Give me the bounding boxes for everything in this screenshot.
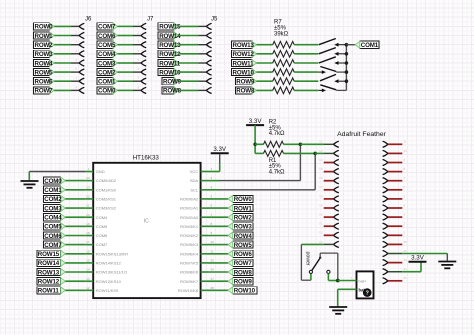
wire — [179, 44, 206, 46]
Feather right pin 5 — [383, 196, 388, 202]
svg-text:ROW14: ROW14 — [38, 260, 60, 267]
Feather left pin 18 — [333, 196, 338, 202]
wire stub — [324, 225, 334, 227]
net label ROW5 — [208, 244, 228, 246]
pin number 2 — [404, 222, 406, 226]
svg-text:COM2: COM2 — [44, 196, 62, 203]
pin 7 of J7 — [141, 78, 146, 84]
resistor R7 element 6 — [273, 87, 295, 94]
IC pin stub left 22 — [86, 198, 93, 200]
IC pin stub right 27 — [201, 280, 208, 282]
IC pin name ROW12/KS10 — [96, 279, 122, 284]
pin number 3 — [211, 176, 213, 180]
svg-text:ROW11: ROW11 — [38, 288, 60, 295]
power supply 3.3V (IC) — [211, 146, 229, 153]
pin number 2 — [351, 285, 353, 289]
svg-text:COM6: COM6 — [98, 33, 116, 40]
net label ROW10 — [158, 69, 181, 77]
svg-text:29: 29 — [404, 249, 408, 253]
wire — [54, 80, 79, 82]
pin number 2 — [76, 31, 78, 35]
wire stub — [388, 280, 402, 282]
wire — [294, 80, 318, 82]
pin number 4 — [404, 203, 406, 207]
pin number 23 — [86, 185, 90, 189]
net label flag ROW6 — [228, 250, 253, 258]
svg-text:ROW9: ROW9 — [236, 79, 255, 86]
wire stub — [388, 225, 402, 227]
IC pin name COM0/AD2 — [96, 178, 117, 183]
pin number 2 — [203, 31, 205, 35]
pin number 1 — [88, 167, 90, 171]
pin 7 of J6 — [79, 78, 84, 84]
wire — [65, 189, 86, 191]
net label ROW9 — [235, 78, 256, 86]
svg-text:COM1: COM1 — [44, 187, 62, 194]
junction — [253, 143, 257, 147]
svg-text:COM7: COM7 — [96, 242, 108, 247]
IC pin name ROW1/A1 — [180, 206, 199, 211]
pin number 1 — [351, 276, 353, 280]
svg-text:18: 18 — [319, 194, 323, 198]
wire — [54, 25, 79, 27]
Feather right pin 6 — [383, 187, 388, 193]
pin number 16 — [86, 249, 90, 253]
net label ROW11 — [158, 59, 181, 67]
svg-text:ROW14/KS12: ROW14/KS12 — [96, 261, 122, 266]
svg-text:20: 20 — [319, 213, 323, 217]
wire — [257, 89, 273, 91]
resistor R2 labels — [269, 120, 285, 138]
pin 1 of J6 — [79, 23, 84, 29]
switch arrow contact ROW12 — [334, 52, 346, 56]
wire — [65, 216, 86, 218]
op-amp U1 : IC HT16K33 body — [93, 154, 200, 298]
Feather right pin 2 — [383, 223, 388, 229]
resistor R7 element 3 — [273, 60, 295, 67]
ground (battery) — [329, 307, 347, 314]
pin 6 of J5 — [206, 69, 211, 75]
net label flag ROW4 — [228, 232, 253, 240]
svg-text:19: 19 — [319, 203, 323, 207]
svg-text:11: 11 — [211, 249, 214, 253]
net label COM4 — [97, 50, 118, 58]
Feather left pin 22 — [333, 232, 338, 238]
net label ROW11 — [232, 59, 257, 67]
switch lever — [312, 253, 322, 270]
wire — [54, 53, 79, 55]
switch contact 1 — [309, 270, 312, 280]
wire — [54, 71, 79, 73]
wire — [54, 44, 79, 46]
wire — [65, 244, 86, 246]
wire — [346, 44, 355, 46]
pin number 4 — [211, 185, 213, 189]
IC pin stub right 10 — [201, 244, 208, 246]
svg-text:SDA: SDA — [190, 178, 199, 183]
svg-text:ROW11: ROW11 — [233, 60, 255, 67]
switch arrow contact ROW8 — [319, 89, 327, 93]
net label COM2 — [97, 69, 118, 77]
net label COM1 — [97, 78, 118, 86]
net label ROW6 — [208, 253, 228, 255]
switch lever row ROW11 — [319, 57, 336, 63]
IC pin stub left 14 — [86, 271, 93, 273]
pin number 26 — [211, 268, 215, 272]
net label ROW13 — [158, 41, 181, 49]
pin number 2 — [138, 31, 140, 35]
net label ROW6 — [34, 78, 55, 86]
wire — [336, 71, 346, 73]
wire — [179, 71, 206, 73]
svg-text:17: 17 — [319, 185, 323, 189]
svg-text:ROW10: ROW10 — [159, 69, 181, 76]
net label ROW1 — [34, 32, 55, 40]
pin number 6 — [404, 185, 406, 189]
pin 8 of J5 — [206, 87, 211, 93]
wire stub — [388, 180, 402, 182]
net label COM3 — [97, 59, 118, 67]
svg-text:28: 28 — [404, 240, 408, 244]
Feather left pin 17 — [333, 187, 338, 193]
net label ROW4 — [208, 235, 228, 237]
pin number 21 — [319, 222, 323, 226]
pin 2 of J5 — [206, 32, 211, 38]
net label ROW13 — [37, 268, 66, 276]
battery connector logo — [363, 288, 372, 297]
IC pin stub right 7 — [201, 216, 208, 218]
pin 5 of J7 — [141, 60, 146, 66]
svg-text:ROW7: ROW7 — [234, 260, 253, 267]
IC pin stub left 15 — [86, 262, 93, 264]
Feather left pin 20 — [333, 214, 338, 220]
pin number 28 — [211, 286, 215, 290]
svg-text:power: power — [305, 252, 311, 266]
net label ROW2 — [34, 41, 55, 49]
wire — [179, 80, 206, 82]
pin number 1 — [203, 21, 205, 25]
wire stub — [324, 216, 334, 218]
svg-text:ROW11: ROW11 — [159, 60, 181, 67]
pin 5 of J6 — [79, 60, 84, 66]
wire — [118, 25, 141, 27]
Feather right pin 32 — [383, 278, 388, 284]
IC pin name SCL — [190, 187, 199, 192]
wire — [65, 235, 86, 237]
wire stub — [324, 189, 334, 191]
IC pin stub right 28 — [201, 289, 208, 291]
pin number 4 — [203, 49, 205, 53]
svg-text:11: 11 — [404, 140, 407, 144]
pin number 6 — [76, 67, 78, 71]
pin number 4 — [76, 49, 78, 53]
svg-text:ROW1/A1: ROW1/A1 — [180, 206, 199, 211]
svg-text:COM1/KS0: COM1/KS0 — [96, 187, 117, 192]
net label ROW7 — [34, 87, 55, 95]
wire SDA — [208, 144, 300, 180]
pin number 1 — [138, 21, 140, 25]
net label ROW8 — [162, 87, 182, 95]
svg-text:ROW8: ROW8 — [234, 269, 253, 276]
wire stub — [388, 189, 402, 191]
wire stub — [388, 243, 402, 245]
pin number 24 — [86, 176, 90, 180]
IC pin stub right 25 — [201, 262, 208, 264]
svg-text:ROW14: ROW14 — [159, 33, 181, 40]
IC pin name COM6 — [96, 233, 108, 238]
pin number 3 — [404, 213, 406, 217]
Feather right pin 30 — [383, 260, 388, 266]
IC pin name ROW13/KS11/1O — [96, 270, 127, 275]
wire — [294, 89, 318, 91]
net label ROW10 — [208, 289, 228, 291]
wire — [118, 71, 141, 73]
svg-text:?: ? — [365, 291, 369, 297]
net label COM7 — [43, 241, 65, 249]
svg-text:COM1: COM1 — [361, 42, 379, 49]
pin number 11 — [404, 140, 407, 144]
svg-text:ROW13: ROW13 — [233, 42, 255, 49]
pin number 16 — [319, 176, 323, 180]
pin number 32 — [404, 276, 408, 280]
pin number 15 — [86, 259, 90, 263]
Feather left pin 19 — [333, 205, 338, 211]
resistor R2 — [255, 141, 300, 147]
pin number 17 — [86, 240, 90, 244]
net label COM3 — [43, 205, 65, 213]
net label ROW14 — [37, 259, 66, 267]
svg-text:21: 21 — [86, 204, 90, 208]
wire — [65, 271, 86, 273]
pin number 8 — [211, 222, 213, 226]
svg-text:13: 13 — [86, 277, 90, 281]
wire — [65, 207, 86, 209]
svg-text:COM3: COM3 — [44, 205, 62, 212]
svg-text:COM4: COM4 — [44, 215, 62, 222]
pin number 17 — [319, 185, 323, 189]
Feather left pin 14 — [333, 159, 338, 165]
wire — [118, 80, 141, 82]
IC pin name COM2/KS1 — [96, 197, 117, 202]
pin number 12 — [319, 140, 323, 144]
svg-text:ROW7: ROW7 — [35, 88, 54, 95]
pin number 22 — [319, 231, 323, 235]
IC pin name ROW9/K7 — [180, 279, 199, 284]
Feather left pin 23 — [333, 241, 338, 247]
svg-text:3.3V: 3.3V — [411, 255, 425, 262]
svg-text:ROW3: ROW3 — [234, 224, 253, 231]
svg-text:COM7: COM7 — [98, 24, 116, 31]
pin number 22 — [86, 195, 90, 199]
net label ROW0 — [34, 23, 55, 31]
wire — [118, 62, 141, 64]
IC pin stub left 13 — [86, 280, 93, 282]
wire stub — [388, 198, 402, 200]
svg-text:10: 10 — [404, 149, 408, 153]
svg-text:COM5: COM5 — [44, 224, 62, 231]
power supply 3.3V (feather) — [409, 255, 427, 262]
switch throw rail — [320, 253, 338, 280]
pin number 9 — [211, 231, 213, 235]
battery connector J2 body — [357, 271, 374, 298]
net label ROW0 — [208, 198, 228, 200]
IC pin stub right 3 — [201, 180, 208, 182]
svg-text:22: 22 — [319, 231, 323, 235]
IC pin name GND — [96, 169, 105, 174]
svg-text:J6: J6 — [85, 17, 92, 23]
svg-text:COM3/KS2: COM3/KS2 — [96, 206, 117, 211]
pin number 6 — [138, 67, 140, 71]
IC pin name ROW3/K1 — [180, 224, 199, 229]
wire stub — [324, 207, 334, 209]
net label flag ROW0 — [228, 195, 253, 203]
IC pin name ROW5/K3 — [180, 242, 199, 247]
pin number 27 — [211, 277, 215, 281]
net label COM1 — [43, 186, 65, 194]
pin 1 of J5 — [206, 23, 211, 29]
junction — [345, 61, 349, 65]
wire — [257, 44, 273, 46]
svg-text:24: 24 — [86, 176, 90, 180]
junction — [345, 52, 349, 56]
pin number 4 — [138, 49, 140, 53]
svg-text:ROW3: ROW3 — [35, 51, 54, 58]
svg-text:15: 15 — [86, 259, 90, 263]
wire — [65, 262, 86, 264]
IC pin name SDA — [190, 178, 199, 183]
svg-text:COM5: COM5 — [96, 224, 108, 229]
wire — [257, 80, 273, 82]
Feather right pin 1 — [383, 232, 388, 238]
junction — [313, 152, 317, 156]
IC pin stub left 21 — [86, 207, 93, 209]
svg-text:R7: R7 — [274, 20, 282, 26]
svg-text:19: 19 — [86, 222, 90, 226]
pin number 21 — [86, 204, 90, 208]
net label ROW5 — [34, 69, 55, 77]
wire stub — [388, 171, 402, 173]
switch arrow contact ROW10 — [319, 70, 327, 74]
svg-text:22: 22 — [86, 195, 90, 199]
net label ROW9 — [162, 78, 182, 86]
IC pin stub right 6 — [201, 207, 208, 209]
pin number 23 — [319, 240, 323, 244]
switch arrow contact ROW11 — [334, 61, 346, 65]
pin number 9 — [404, 158, 406, 162]
net label ROW9 — [208, 280, 228, 282]
svg-text:ROW9/K7: ROW9/K7 — [180, 279, 199, 284]
wire bat+ — [338, 280, 357, 282]
pin 3 of J5 — [206, 42, 211, 48]
Feather right pin 8 — [383, 169, 388, 175]
svg-text:COM7: COM7 — [44, 242, 62, 249]
pin number 30 — [404, 258, 408, 262]
pin number 7 — [211, 213, 213, 217]
switch lever row ROW12 — [319, 48, 336, 54]
pin number 10 — [211, 240, 215, 244]
IC pin name ROW4/K2 — [180, 233, 199, 238]
pin 5 of J5 — [206, 60, 211, 66]
svg-text:18: 18 — [86, 231, 90, 235]
resistor network R7 value labels — [274, 20, 289, 38]
svg-text:27: 27 — [211, 277, 215, 281]
IC pin stub right 9 — [201, 235, 208, 237]
svg-text:4.7kΩ: 4.7kΩ — [269, 170, 285, 176]
pin number 3 — [76, 40, 78, 44]
Feather right pin 11 — [383, 141, 388, 147]
wire — [179, 25, 206, 27]
resistor R7 element 1 — [273, 41, 295, 48]
IC pin stub left 12 — [86, 289, 93, 291]
pin number 5 — [211, 195, 213, 199]
svg-text:COM4: COM4 — [98, 51, 116, 58]
wire — [65, 180, 86, 182]
wire stub — [388, 162, 402, 164]
wire — [118, 35, 141, 37]
svg-text:COM0: COM0 — [98, 88, 116, 95]
svg-text:16: 16 — [319, 176, 323, 180]
svg-text:COM0/AD2: COM0/AD2 — [96, 178, 117, 183]
net label COM2 — [43, 195, 65, 203]
svg-text:ROW1: ROW1 — [35, 33, 54, 40]
pin number 13 — [86, 277, 90, 281]
IC pin name COM5 — [96, 224, 108, 229]
svg-text:ROW2: ROW2 — [35, 42, 54, 49]
svg-text:ROW4: ROW4 — [234, 233, 253, 240]
IC pin stub right 11 — [201, 253, 208, 255]
net label flag ROW1 — [228, 205, 253, 213]
pin 3 of J6 — [79, 42, 84, 48]
junction — [345, 43, 349, 47]
junction — [299, 143, 303, 147]
wire — [336, 89, 346, 91]
svg-text:ROW10: ROW10 — [233, 69, 255, 76]
pin 3 of J7 — [141, 42, 146, 48]
svg-text:ROW9: ROW9 — [163, 79, 182, 86]
svg-text:14: 14 — [86, 268, 90, 272]
net label ROW15 — [37, 250, 66, 258]
svg-text:12: 12 — [319, 140, 323, 144]
net label COM6 — [43, 232, 65, 240]
IC pin name ROW2/A0 — [180, 215, 199, 220]
svg-text:COM1: COM1 — [98, 79, 116, 86]
net label ROW4 — [34, 59, 55, 67]
pin number 5 — [404, 194, 406, 198]
svg-text:32: 32 — [404, 276, 408, 280]
net label ROW12 — [158, 50, 181, 58]
pin 1 of J7 — [141, 23, 146, 29]
wire — [257, 71, 273, 73]
svg-text:ROW15/KS13/INT: ROW15/KS13/INT — [96, 251, 129, 256]
svg-text:21: 21 — [319, 222, 323, 226]
net label ROW2 — [208, 216, 228, 218]
svg-text:ROW9: ROW9 — [234, 279, 253, 286]
wire — [65, 225, 86, 227]
IC pin name ROW10/K8 — [178, 288, 199, 293]
pin number 8 — [138, 85, 140, 89]
pin number 8 — [404, 167, 406, 171]
pin number 7 — [404, 176, 406, 180]
IC pin stub left 23 — [86, 189, 93, 191]
svg-text:23: 23 — [86, 185, 90, 189]
svg-text:ROW12: ROW12 — [38, 279, 60, 286]
IC pin name ROW14/KS12 — [96, 261, 122, 266]
svg-text:ROW0: ROW0 — [35, 24, 54, 31]
wire stub — [388, 207, 402, 209]
wire — [179, 89, 206, 91]
svg-text:ROW12: ROW12 — [159, 51, 181, 58]
wire stub — [388, 143, 402, 145]
